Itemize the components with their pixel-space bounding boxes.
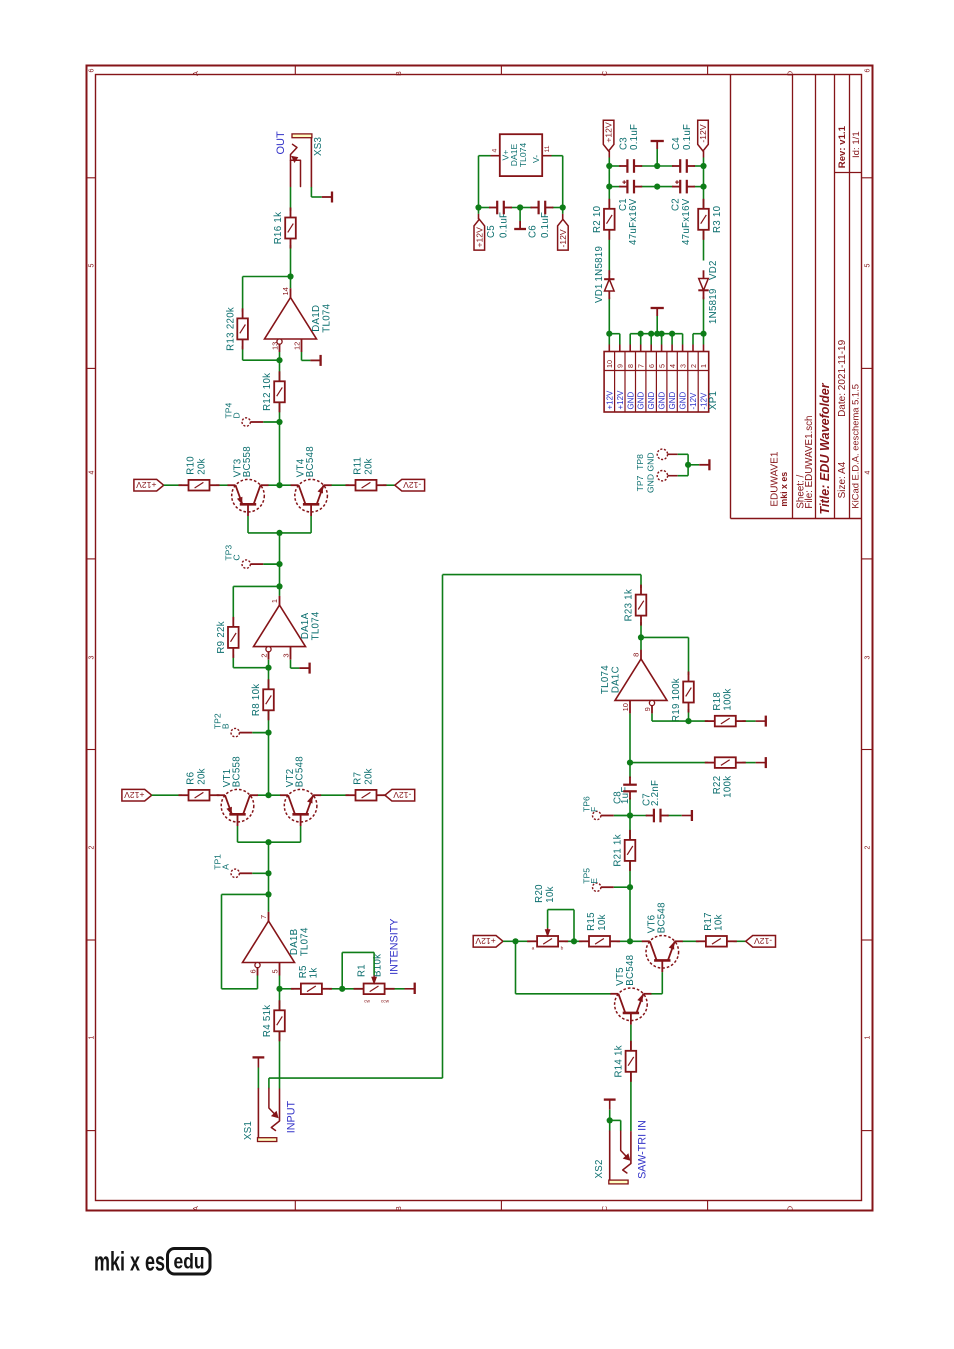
- svg-text:A: A: [193, 71, 200, 76]
- svg-text:cw: cw: [364, 1000, 370, 1005]
- svg-text:1N5819: 1N5819: [594, 246, 605, 282]
- svg-text:R5: R5: [298, 965, 309, 978]
- svg-text:3: 3: [88, 655, 95, 659]
- svg-text:2: 2: [259, 653, 268, 657]
- svg-text:R18: R18: [712, 692, 723, 711]
- svg-text:10k: 10k: [545, 886, 556, 903]
- svg-text:GND: GND: [637, 392, 646, 410]
- svg-text:8: 8: [626, 364, 635, 368]
- svg-text:-12V: -12V: [754, 936, 772, 946]
- svg-text:R12 10k: R12 10k: [262, 373, 273, 411]
- svg-text:0.1uF: 0.1uF: [682, 124, 693, 150]
- svg-text:R21 1k: R21 1k: [613, 834, 624, 867]
- svg-text:mki x es: mki x es: [779, 472, 789, 507]
- svg-text:20k: 20k: [363, 768, 374, 785]
- svg-text:XS1: XS1: [243, 1121, 254, 1140]
- svg-text:D: D: [231, 412, 241, 418]
- svg-text:R17: R17: [703, 912, 714, 931]
- svg-text:0.1uF: 0.1uF: [499, 212, 510, 238]
- svg-text:ccw: ccw: [381, 1000, 390, 1005]
- svg-text:10: 10: [621, 703, 630, 711]
- svg-text:GND: GND: [647, 392, 656, 410]
- svg-text:4: 4: [491, 149, 498, 153]
- svg-text:+12V: +12V: [475, 936, 496, 946]
- svg-text:Date: 2021-11-19: Date: 2021-11-19: [837, 339, 848, 417]
- svg-text:R19 100k: R19 100k: [671, 678, 682, 722]
- svg-text:E: E: [589, 878, 599, 884]
- svg-text:+12V: +12V: [605, 390, 614, 410]
- svg-text:b: b: [561, 946, 564, 952]
- svg-text:5: 5: [657, 364, 666, 368]
- svg-text:+12V: +12V: [604, 122, 614, 143]
- svg-text:10k: 10k: [714, 914, 725, 931]
- svg-text:R20: R20: [534, 884, 545, 903]
- svg-text:DA1B: DA1B: [289, 929, 300, 956]
- svg-text:R3 10: R3 10: [712, 205, 723, 233]
- svg-text:6: 6: [249, 969, 258, 973]
- svg-text:10: 10: [605, 360, 614, 368]
- svg-text:C4: C4: [671, 137, 682, 150]
- svg-text:GND: GND: [646, 452, 656, 471]
- svg-text:V-: V-: [531, 155, 541, 163]
- svg-text:TL074: TL074: [518, 143, 528, 168]
- svg-text:4: 4: [864, 470, 871, 474]
- svg-text:2.2nF: 2.2nF: [650, 780, 661, 806]
- svg-text:11: 11: [544, 145, 551, 152]
- svg-text:R8 10k: R8 10k: [251, 684, 262, 717]
- svg-text:XS3: XS3: [313, 137, 324, 156]
- svg-text:20k: 20k: [196, 768, 207, 785]
- svg-text:XP1: XP1: [708, 391, 719, 410]
- svg-text:TP7: TP7: [635, 475, 645, 491]
- svg-text:Id: 1/1: Id: 1/1: [851, 131, 862, 158]
- svg-text:R1: R1: [356, 964, 367, 977]
- svg-text:BC558: BC558: [232, 756, 243, 787]
- svg-text:R2 10: R2 10: [592, 205, 603, 233]
- svg-text:F: F: [589, 807, 599, 812]
- svg-text:100k: 100k: [723, 776, 734, 798]
- svg-text:C: C: [602, 1206, 609, 1211]
- svg-text:DA1D: DA1D: [311, 305, 322, 332]
- svg-text:R10: R10: [186, 456, 197, 475]
- svg-text:100k: 100k: [723, 688, 734, 710]
- svg-text:14: 14: [281, 287, 290, 295]
- svg-text:R11: R11: [353, 457, 364, 475]
- svg-text:GND: GND: [679, 392, 688, 410]
- svg-text:B: B: [396, 1206, 403, 1211]
- svg-text:D: D: [787, 71, 794, 76]
- svg-text:R22: R22: [712, 776, 723, 795]
- svg-text:7: 7: [259, 915, 268, 919]
- svg-text:DA1C: DA1C: [610, 666, 621, 693]
- svg-text:a: a: [532, 947, 535, 952]
- svg-text:3: 3: [281, 653, 290, 657]
- svg-text:GND: GND: [658, 392, 667, 410]
- svg-text:-12V: -12V: [689, 392, 698, 410]
- svg-text:-12V: -12V: [558, 229, 568, 247]
- svg-text:4: 4: [668, 364, 677, 368]
- svg-text:BC548: BC548: [625, 955, 636, 986]
- svg-text:0.1uF: 0.1uF: [629, 124, 640, 150]
- svg-text:R13 220k: R13 220k: [225, 307, 236, 351]
- svg-text:2: 2: [689, 364, 698, 368]
- svg-text:+12V: +12V: [136, 480, 157, 490]
- svg-text:R14 1k: R14 1k: [614, 1045, 625, 1078]
- svg-text:+12V: +12V: [474, 227, 484, 248]
- svg-text:1N5819: 1N5819: [708, 288, 719, 324]
- svg-text:9: 9: [643, 707, 652, 711]
- svg-text:GND: GND: [626, 392, 635, 410]
- svg-text:1: 1: [864, 1035, 871, 1039]
- svg-text:1: 1: [270, 599, 279, 603]
- svg-text:A: A: [220, 864, 230, 870]
- svg-text:Size: A4: Size: A4: [837, 461, 848, 498]
- svg-text:1: 1: [88, 1035, 95, 1039]
- svg-text:C6: C6: [528, 225, 539, 238]
- svg-text:Rev: v1.1: Rev: v1.1: [837, 125, 848, 168]
- svg-text:GND: GND: [668, 392, 677, 410]
- svg-text:TL074: TL074: [300, 927, 311, 956]
- svg-text:KiCad E.D.A. eeschema 5.1.5: KiCad E.D.A. eeschema 5.1.5: [850, 384, 861, 509]
- svg-text:7: 7: [637, 364, 646, 368]
- svg-text:R7: R7: [353, 772, 364, 785]
- svg-text:R6: R6: [186, 772, 197, 785]
- svg-text:R16 1k: R16 1k: [273, 212, 284, 245]
- svg-text:mki x es: mki x es: [94, 1247, 165, 1277]
- svg-text:C: C: [231, 554, 241, 560]
- svg-text:4: 4: [88, 470, 95, 474]
- svg-text:-12V: -12V: [403, 480, 421, 490]
- svg-text:OUT: OUT: [275, 131, 287, 155]
- svg-text:TL074: TL074: [322, 303, 333, 332]
- svg-text:edu: edu: [174, 1251, 205, 1274]
- svg-text:SAW-TRI IN: SAW-TRI IN: [636, 1120, 648, 1179]
- svg-text:TP8: TP8: [635, 454, 645, 470]
- svg-text:47uFx16V: 47uFx16V: [628, 198, 639, 245]
- svg-text:+12V: +12V: [124, 790, 145, 800]
- svg-text:BC548: BC548: [656, 902, 667, 933]
- svg-text:VD2: VD2: [708, 260, 719, 280]
- svg-text:DA1A: DA1A: [300, 612, 311, 639]
- svg-text:BC558: BC558: [242, 446, 253, 477]
- svg-text:20k: 20k: [196, 458, 207, 475]
- svg-text:INPUT: INPUT: [285, 1101, 297, 1134]
- svg-text:C3: C3: [618, 137, 629, 150]
- svg-text:INTENSITY: INTENSITY: [388, 919, 400, 975]
- svg-text:R4 51k: R4 51k: [262, 1005, 273, 1038]
- svg-text:File: EDUWAVE1.sch: File: EDUWAVE1.sch: [804, 416, 815, 509]
- svg-text:8: 8: [632, 653, 641, 657]
- svg-text:6: 6: [647, 364, 656, 368]
- svg-text:GND: GND: [646, 474, 656, 493]
- svg-text:2: 2: [88, 845, 95, 849]
- svg-text:R23 1k: R23 1k: [624, 589, 635, 622]
- svg-text:20k: 20k: [363, 458, 374, 475]
- svg-text:1k: 1k: [309, 967, 320, 978]
- svg-text:6: 6: [88, 68, 95, 72]
- svg-text:5: 5: [88, 263, 95, 267]
- svg-text:D: D: [787, 1206, 794, 1211]
- svg-text:BC548: BC548: [305, 446, 316, 477]
- svg-text:9: 9: [616, 364, 625, 368]
- svg-text:XS2: XS2: [594, 1159, 605, 1178]
- svg-text:5: 5: [864, 263, 871, 267]
- svg-text:A: A: [193, 1206, 200, 1211]
- svg-text:+12V: +12V: [616, 390, 625, 410]
- svg-text:B: B: [220, 723, 230, 729]
- svg-text:1: 1: [699, 364, 708, 368]
- svg-text:R15: R15: [586, 912, 597, 931]
- svg-text:C: C: [602, 71, 609, 76]
- svg-text:R9 22k: R9 22k: [216, 621, 227, 654]
- svg-text:BC548: BC548: [295, 756, 306, 787]
- svg-text:3: 3: [864, 655, 871, 659]
- svg-text:-12V: -12V: [698, 124, 708, 142]
- svg-text:-12V: -12V: [393, 790, 411, 800]
- svg-text:0.1uF: 0.1uF: [540, 212, 551, 238]
- svg-text:2: 2: [864, 845, 871, 849]
- svg-text:Title: EDU Wavefolder: Title: EDU Wavefolder: [818, 382, 832, 514]
- svg-text:6: 6: [864, 68, 871, 72]
- svg-text:12: 12: [292, 342, 301, 350]
- svg-text:3: 3: [678, 364, 687, 368]
- svg-text:47uFx16V: 47uFx16V: [681, 198, 692, 245]
- svg-text:10k: 10k: [597, 914, 608, 931]
- svg-text:5: 5: [270, 969, 279, 973]
- svg-text:TL074: TL074: [311, 611, 322, 640]
- svg-text:C5: C5: [486, 225, 497, 238]
- svg-text:B: B: [396, 71, 403, 76]
- svg-text:VD1: VD1: [594, 283, 605, 303]
